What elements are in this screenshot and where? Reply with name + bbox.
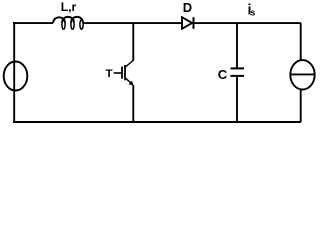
svg-text:s: s (250, 7, 255, 17)
svg-text:L,r: L,r (61, 0, 77, 14)
svg-text:C: C (218, 67, 228, 82)
svg-text:D: D (183, 0, 192, 15)
svg-text:T: T (106, 68, 113, 80)
